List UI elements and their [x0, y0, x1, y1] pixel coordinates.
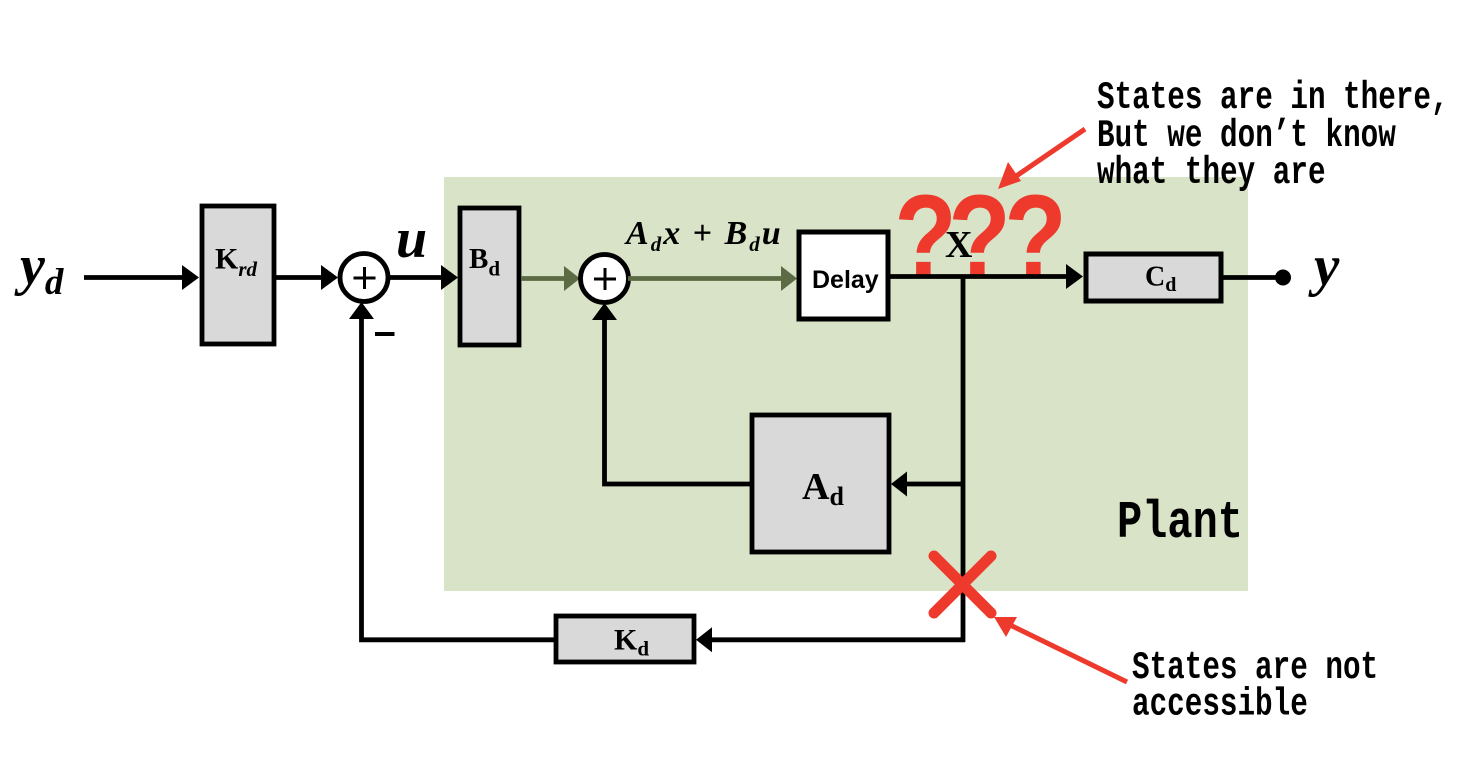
block Kd	[556, 616, 694, 662]
wire Bd to sum2 (olive)	[521, 276, 564, 281]
wire Cd to output dot	[1221, 275, 1278, 280]
wire junction to Ad	[907, 482, 963, 487]
block Ad	[752, 415, 889, 552]
wire sum2 to Delay (olive)	[628, 276, 781, 281]
wire junction to Kd	[712, 637, 965, 642]
red arrow to question marks	[1009, 129, 1085, 181]
wire Kd to sum1	[362, 319, 557, 640]
wire sum1 to Bd	[389, 275, 441, 280]
wire junction x down	[961, 277, 966, 642]
minus sign at S1	[375, 332, 395, 336]
svg-text:accessible: accessible	[1132, 683, 1308, 727]
plant region background	[444, 177, 1248, 591]
summing junction S2	[581, 255, 629, 303]
annotation bottom: states are not accessible	[1132, 646, 1378, 727]
block Bd	[460, 208, 519, 345]
svg-text:u: u	[396, 208, 427, 270]
red cross X	[934, 556, 991, 613]
svg-text:?: ?	[1004, 170, 1067, 303]
block Krd	[202, 206, 274, 344]
svg-text:what they are: what they are	[1097, 151, 1326, 195]
svg-text:X: X	[945, 224, 972, 266]
summing junction S1	[340, 254, 388, 302]
wire Krd to sum1	[276, 275, 321, 280]
red question marks	[894, 170, 1067, 303]
wire yd to Krd	[84, 275, 182, 280]
svg-text:y: y	[1308, 235, 1340, 298]
annotation top: states are in there	[1097, 77, 1449, 196]
svg-text:Plant: Plant	[1117, 494, 1243, 554]
svg-text:Delay: Delay	[812, 266, 879, 294]
block Cd	[1086, 254, 1221, 301]
wire Ad to sum2	[605, 320, 751, 484]
block Delay	[799, 232, 888, 319]
wire Delay to Cd	[890, 274, 1066, 279]
svg-text:yd: yd	[14, 235, 64, 303]
red arrow to cross	[1006, 623, 1127, 682]
output node dot	[1275, 270, 1291, 286]
